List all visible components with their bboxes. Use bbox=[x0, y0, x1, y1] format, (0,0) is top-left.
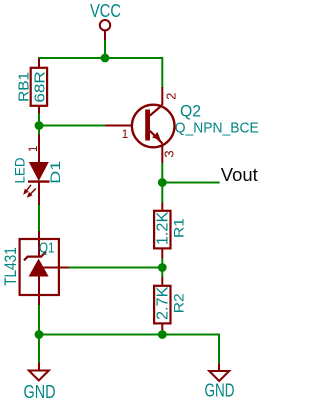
wire emitter to R1 bbox=[161, 163, 163, 203]
svg-text:GND: GND bbox=[205, 381, 235, 400]
transistor Q2 emitter stroke bbox=[150, 131, 162, 144]
resistor R1 pin bottom bbox=[161, 248, 163, 258]
LED D1 emission arrow a bbox=[24, 185, 31, 194]
LED D1 emission arrow b bbox=[28, 189, 36, 197]
LED D1 pin cathode bbox=[38, 182, 40, 205]
node junction bottom left bbox=[35, 330, 44, 339]
wire RB1 to base net bbox=[38, 106, 40, 135]
transistor Q2 collector pin bbox=[161, 87, 163, 105]
svg-text:D1: D1 bbox=[48, 161, 63, 184]
ground symbol left pin bbox=[38, 363, 40, 371]
regulator Q1 TL431 zener bar bbox=[24, 252, 46, 261]
resistor R1 body bbox=[154, 211, 170, 249]
power symbol VCC pin bbox=[104, 31, 106, 40]
svg-text:TL431: TL431 bbox=[1, 247, 20, 286]
regulator Q1 TL431 triangle bbox=[29, 259, 49, 277]
LED D1 cathode bar bbox=[28, 180, 50, 182]
node junction VCC rail bbox=[101, 54, 110, 63]
wire VCC rail top bbox=[39, 58, 162, 88]
ground symbol right pin bbox=[218, 363, 220, 371]
svg-text:Q1: Q1 bbox=[39, 240, 55, 257]
wire R2 to bottom rail bbox=[161, 330, 163, 335]
node junction base/LED bbox=[35, 121, 44, 130]
wire LED cathode to TL431 bbox=[38, 205, 40, 232]
svg-text:1.2K: 1.2K bbox=[154, 211, 171, 245]
wire VCC stem bbox=[104, 40, 106, 58]
regulator Q1 TL431 cathode pin bbox=[38, 231, 40, 257]
svg-text:3: 3 bbox=[161, 150, 176, 157]
resistor R2 body bbox=[154, 286, 170, 324]
resistor RB1 pin top bbox=[38, 59, 40, 68]
wire TL431 REF to divider bbox=[69, 267, 162, 269]
svg-text:R2: R2 bbox=[170, 293, 186, 313]
node junction R1/R2/REF bbox=[158, 263, 167, 272]
svg-text:Vout: Vout bbox=[221, 164, 258, 185]
svg-text:GND: GND bbox=[24, 382, 56, 400]
power symbol VCC circle bbox=[100, 20, 110, 30]
wire R1 to R2 bbox=[161, 259, 163, 278]
wire TL431 anode to bottom rail bbox=[38, 305, 40, 335]
wire left GND drop bbox=[38, 335, 40, 363]
svg-text:Q_NPN_BCE: Q_NPN_BCE bbox=[175, 120, 259, 137]
ground symbol right triangle bbox=[209, 371, 229, 381]
transistor Q2 emitter pin bbox=[161, 143, 163, 163]
svg-text:1: 1 bbox=[28, 146, 40, 152]
LED D1 pin anode bbox=[38, 135, 40, 163]
regulator Q1 TL431 ref pin bbox=[44, 267, 70, 269]
node junction bottom right column bbox=[158, 330, 167, 339]
regulator Q1 TL431 anode pin bbox=[38, 277, 40, 306]
ground symbol left triangle bbox=[29, 371, 49, 381]
transistor Q2 base pin bbox=[105, 125, 132, 127]
wire base horizontal bbox=[39, 125, 107, 127]
resistor RB1 body bbox=[31, 68, 47, 106]
transistor Q2 collector stroke bbox=[150, 105, 162, 116]
resistor R2 pin bottom bbox=[161, 323, 163, 330]
svg-text:2.7K: 2.7K bbox=[154, 286, 171, 320]
resistor RB1 pin bottom bbox=[38, 106, 40, 114]
svg-text:1: 1 bbox=[122, 127, 129, 141]
LED D1 triangle bbox=[29, 162, 49, 181]
svg-text:68R: 68R bbox=[32, 71, 49, 103]
regulator Q1 TL431 box bbox=[20, 239, 59, 295]
wire bottom rail bbox=[39, 335, 219, 364]
svg-text:Q2: Q2 bbox=[180, 103, 201, 121]
node junction Vout bbox=[158, 178, 167, 187]
svg-text:RB1: RB1 bbox=[16, 72, 33, 102]
transistor Q2 circle bbox=[132, 105, 175, 148]
wire Vout stub bbox=[162, 182, 219, 184]
svg-text:R1: R1 bbox=[170, 218, 186, 238]
svg-text:VCC: VCC bbox=[90, 1, 121, 21]
transistor Q2 emitter arrow bbox=[152, 132, 161, 141]
resistor R1 pin top bbox=[161, 203, 163, 211]
resistor R2 pin top bbox=[161, 277, 163, 286]
svg-text:LED: LED bbox=[13, 157, 28, 183]
svg-text:2: 2 bbox=[163, 93, 178, 100]
transistor Q2 base bar bbox=[145, 110, 150, 141]
